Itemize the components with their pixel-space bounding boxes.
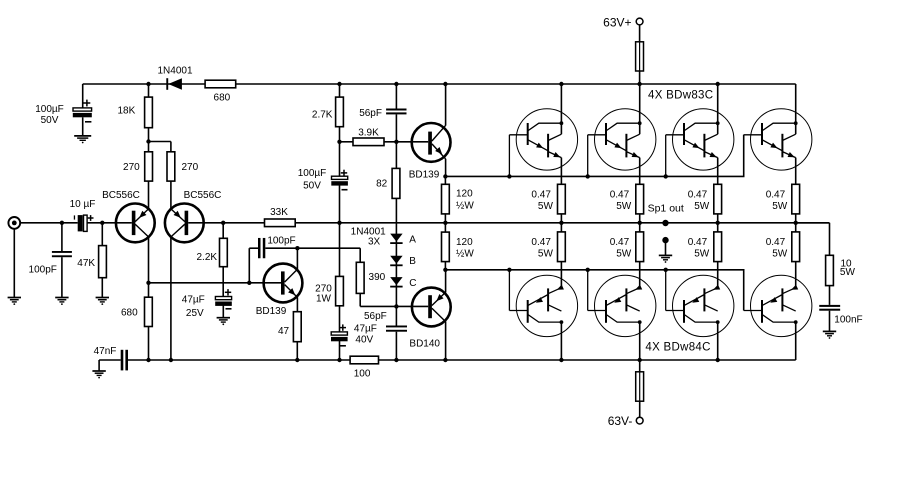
svg-text:BC556C: BC556C [184,190,222,201]
svg-text:BD139: BD139 [409,169,440,180]
svg-text:5W: 5W [616,201,632,212]
svg-text:120: 120 [456,237,473,248]
svg-text:47µF: 47µF [354,323,377,334]
svg-text:0.47: 0.47 [531,190,551,201]
svg-text:680: 680 [214,92,231,103]
svg-text:3X: 3X [368,237,381,248]
svg-text:½W: ½W [456,248,474,259]
svg-text:2.2K: 2.2K [197,252,218,263]
svg-text:BD140: BD140 [409,339,440,350]
svg-text:56pF: 56pF [359,108,382,119]
svg-text:100µF: 100µF [35,104,64,115]
svg-text:4X BDw84C: 4X BDw84C [645,341,710,353]
svg-text:0.47: 0.47 [610,237,630,248]
svg-text:3.9K: 3.9K [358,128,379,139]
svg-text:50V: 50V [303,181,321,192]
svg-text:680: 680 [121,307,138,318]
svg-text:25V: 25V [186,308,204,319]
svg-text:BC556C: BC556C [102,190,140,201]
svg-text:1N4001: 1N4001 [157,66,192,77]
svg-text:100µF: 100µF [298,168,327,179]
svg-text:270: 270 [123,162,140,173]
svg-text:C: C [409,278,416,289]
svg-text:1W: 1W [316,294,332,305]
svg-text:50V: 50V [41,115,59,126]
svg-text:82: 82 [376,179,388,190]
svg-text:0.47: 0.47 [531,237,551,248]
svg-text:BD139: BD139 [256,306,287,317]
svg-text:47nF: 47nF [94,346,117,357]
svg-text:100nF: 100nF [834,315,862,326]
svg-text:33K: 33K [270,207,288,218]
svg-text:2.7K: 2.7K [312,109,333,120]
svg-text:0.47: 0.47 [688,237,708,248]
svg-text:5W: 5W [694,201,710,212]
svg-text:18K: 18K [118,106,136,117]
svg-text:270: 270 [181,162,198,173]
svg-text:5W: 5W [616,248,632,259]
svg-text:A: A [409,234,416,245]
svg-text:5W: 5W [694,248,710,259]
svg-text:47µF: 47µF [182,295,205,306]
svg-text:0.47: 0.47 [766,190,786,201]
svg-text:5W: 5W [772,248,788,259]
svg-text:½W: ½W [456,201,474,212]
svg-text:5W: 5W [538,248,554,259]
svg-text:100pF: 100pF [29,264,57,275]
svg-text:47: 47 [278,326,290,337]
svg-text:390: 390 [369,272,386,283]
svg-text:4X BDw83C: 4X BDw83C [648,89,713,101]
svg-text:0.47: 0.47 [766,237,786,248]
svg-text:5W: 5W [840,267,856,278]
svg-text:0.47: 0.47 [688,190,708,201]
svg-text:10 µF: 10 µF [70,199,96,210]
svg-text:100: 100 [354,368,371,379]
svg-text:100pF: 100pF [267,235,295,246]
svg-text:40V: 40V [355,335,373,346]
svg-text:B: B [409,256,416,267]
svg-text:0.47: 0.47 [610,190,630,201]
svg-text:63V+: 63V+ [603,16,631,30]
svg-text:56pF: 56pF [364,311,387,322]
svg-text:5W: 5W [772,201,788,212]
svg-text:5W: 5W [538,201,554,212]
svg-text:63V-: 63V- [608,414,633,428]
svg-text:47K: 47K [77,258,95,269]
svg-text:Sp1 out: Sp1 out [648,202,684,214]
svg-text:120: 120 [456,189,473,200]
